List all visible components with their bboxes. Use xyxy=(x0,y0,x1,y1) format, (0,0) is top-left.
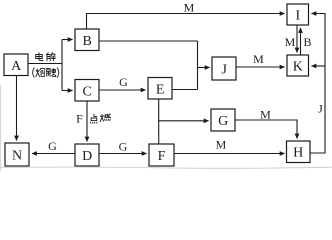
svg-text:M: M xyxy=(253,52,264,66)
svg-text:G: G xyxy=(48,139,57,153)
svg-text:G: G xyxy=(119,140,128,154)
svg-text:J: J xyxy=(318,102,323,116)
wire E right xyxy=(172,89,198,91)
svg-text:M: M xyxy=(285,35,296,49)
box J xyxy=(212,57,236,80)
svg-text:F: F xyxy=(158,149,166,164)
box E xyxy=(148,78,172,100)
scan artifact line bottom xyxy=(0,167,332,168)
label (熔融) molten hand-drawn glyphs xyxy=(33,68,59,78)
wire H right up to I and K xyxy=(310,14,325,154)
svg-text:J: J xyxy=(221,63,227,78)
box G xyxy=(211,109,235,131)
wire D to F xyxy=(99,153,147,155)
svg-text:M: M xyxy=(184,1,195,15)
svg-text:M: M xyxy=(260,108,271,122)
svg-text:N: N xyxy=(12,149,22,164)
wire E to F connector xyxy=(158,99,160,144)
box C xyxy=(75,80,99,102)
wire vertical B/E join xyxy=(197,41,199,90)
wire arrow into G xyxy=(159,120,209,122)
svg-text:G: G xyxy=(218,114,228,129)
wire B up and right to I xyxy=(87,14,285,30)
wire C down to D xyxy=(86,101,88,142)
label 电解 (electrolysis) hand-drawn glyphs xyxy=(36,53,56,61)
wire branch into K right xyxy=(312,65,326,67)
wire branch vertical xyxy=(61,40,63,91)
svg-text:B: B xyxy=(83,34,92,49)
svg-text:A: A xyxy=(11,59,22,74)
wire arrow into J xyxy=(198,67,210,69)
wire arrow into C xyxy=(62,90,73,92)
box K xyxy=(287,55,309,76)
box A xyxy=(4,54,28,76)
box B xyxy=(75,29,99,51)
wire J to K xyxy=(236,66,285,68)
wire C to E xyxy=(99,89,146,91)
scan artifact left edge xyxy=(0,85,2,171)
svg-text:G: G xyxy=(119,75,128,89)
wire K to I xyxy=(300,28,302,55)
svg-text:B: B xyxy=(303,35,311,49)
svg-text:C: C xyxy=(83,84,92,99)
svg-text:I: I xyxy=(295,9,300,24)
wire A to BC-branch xyxy=(28,63,62,65)
wire A down to N xyxy=(16,76,18,141)
svg-text:H: H xyxy=(293,146,303,161)
wire G right then down into H xyxy=(235,120,297,139)
svg-text:M: M xyxy=(216,138,227,152)
wire F to H xyxy=(174,153,285,155)
svg-text:E: E xyxy=(156,82,165,97)
svg-text:F: F xyxy=(76,112,83,126)
wire D to N xyxy=(32,153,75,155)
box H xyxy=(287,141,311,163)
box I xyxy=(287,4,309,25)
wire I to K xyxy=(296,26,298,53)
svg-text:K: K xyxy=(293,60,303,75)
box D xyxy=(75,144,99,166)
wire B right xyxy=(99,40,198,42)
label 点燃 (ignite) hand-drawn glyphs xyxy=(90,114,110,123)
box N xyxy=(5,143,29,166)
box F xyxy=(149,144,174,166)
svg-text:D: D xyxy=(82,149,92,164)
wire arrow into B xyxy=(62,39,73,41)
